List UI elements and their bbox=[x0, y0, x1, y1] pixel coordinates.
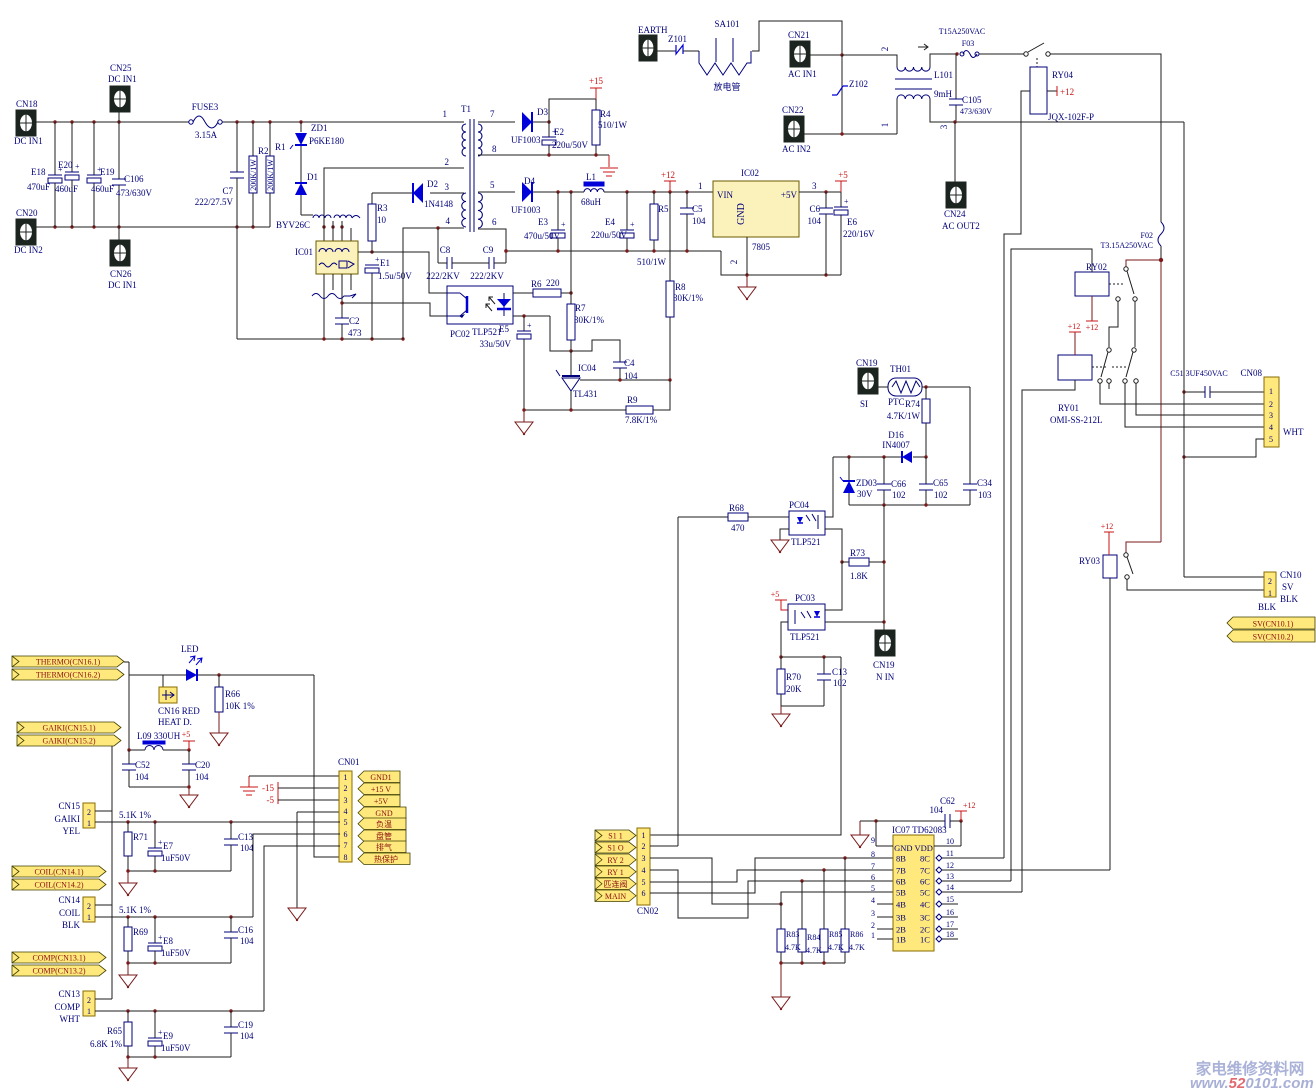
wire IC01 fb to PC02 bbox=[358, 252, 447, 293]
svg-text:DC IN1: DC IN1 bbox=[14, 136, 43, 146]
svg-text:1uF50V: 1uF50V bbox=[161, 853, 191, 863]
svg-text:CN20: CN20 bbox=[16, 208, 38, 218]
wire secondary gnd rail bbox=[506, 250, 721, 252]
svg-text:104: 104 bbox=[808, 216, 822, 226]
relay RY01 contacts bbox=[1092, 366, 1108, 368]
capacitor C5 104 bbox=[686, 192, 688, 208]
wire F03 to switch bbox=[979, 53, 1024, 55]
svg-text:负温: 负温 bbox=[376, 819, 392, 829]
svg-text:TH01: TH01 bbox=[890, 364, 911, 374]
svg-text:7: 7 bbox=[490, 109, 495, 119]
resistor R83 4.7K bbox=[780, 904, 782, 929]
wire CN22 to choke bbox=[804, 133, 897, 135]
svg-text:C2: C2 bbox=[349, 316, 360, 326]
capacitor C34 103 bbox=[969, 387, 971, 484]
svg-text:8B: 8B bbox=[896, 854, 906, 864]
svg-text:BLK: BLK bbox=[62, 920, 81, 930]
net flag RY1 bbox=[595, 866, 636, 878]
svg-text:104: 104 bbox=[692, 216, 706, 226]
svg-text:7C: 7C bbox=[920, 866, 930, 876]
capacitor C13 102 bbox=[823, 657, 825, 674]
wire gnd rail drop bbox=[721, 251, 841, 275]
svg-text:4.7K: 4.7K bbox=[806, 946, 822, 955]
svg-text:CN24: CN24 bbox=[944, 209, 966, 219]
svg-text:CN13: CN13 bbox=[58, 989, 80, 999]
node IC01 top pins bbox=[322, 225, 325, 228]
svg-text:3: 3 bbox=[1269, 411, 1273, 420]
svg-text:TLP521: TLP521 bbox=[472, 327, 502, 337]
svg-text:30K/1%: 30K/1% bbox=[574, 315, 605, 325]
ground IC07 pin9 bbox=[859, 821, 861, 835]
svg-text:2: 2 bbox=[344, 784, 348, 793]
diode D3 UF1003 bbox=[522, 112, 532, 132]
resistor R3 10 bbox=[371, 193, 373, 204]
node junctions on DC rails bbox=[53, 120, 56, 123]
svg-text:4C: 4C bbox=[920, 900, 930, 910]
svg-text:放电管: 放电管 bbox=[713, 81, 740, 92]
zener diode ZD1 P6KE180 bbox=[300, 122, 302, 132]
svg-text:1: 1 bbox=[1269, 387, 1273, 396]
svg-text:UF1003: UF1003 bbox=[511, 135, 541, 145]
svg-text:1C: 1C bbox=[920, 935, 930, 945]
wire RY03 to CN10 pin1 bbox=[1127, 579, 1264, 590]
net flag 盘管 bbox=[358, 830, 406, 842]
svg-text:E4: E4 bbox=[605, 217, 615, 227]
resistor R70 20K bbox=[780, 657, 782, 669]
svg-text:5.1K 1%: 5.1K 1% bbox=[119, 810, 151, 820]
svg-text:RY 1: RY 1 bbox=[607, 868, 623, 877]
wire R4/E2 loop to +15 bbox=[549, 99, 596, 122]
svg-text:+12: +12 bbox=[661, 170, 675, 180]
wire C8 C9 link bbox=[438, 262, 447, 264]
resistor R7 30K/1% bbox=[570, 293, 572, 304]
svg-text:3: 3 bbox=[939, 124, 949, 129]
svg-text:1: 1 bbox=[880, 123, 890, 128]
wire SIO bus bbox=[677, 517, 679, 846]
svg-text:Z102: Z102 bbox=[849, 79, 868, 89]
svg-text:C4: C4 bbox=[624, 358, 635, 368]
svg-text:R4: R4 bbox=[600, 109, 611, 119]
svg-text:L1: L1 bbox=[586, 172, 596, 182]
svg-text:GND1: GND1 bbox=[370, 773, 391, 782]
svg-text:3C: 3C bbox=[920, 913, 930, 923]
svg-text:9mH: 9mH bbox=[934, 89, 953, 99]
svg-text:LED: LED bbox=[181, 644, 199, 654]
wire DC+ top rail bbox=[36, 121, 191, 123]
svg-text:C7: C7 bbox=[222, 186, 233, 196]
svg-text:460uF: 460uF bbox=[55, 184, 78, 194]
svg-text:510/1W: 510/1W bbox=[598, 120, 628, 130]
svg-text:1uF50V: 1uF50V bbox=[161, 948, 191, 958]
svg-text:104: 104 bbox=[135, 772, 149, 782]
svg-text:R9: R9 bbox=[627, 395, 638, 405]
svg-text:COIL(CN14.2): COIL(CN14.2) bbox=[34, 881, 83, 890]
relay RY03 contact bbox=[1124, 553, 1128, 557]
node D3 out bbox=[547, 120, 550, 123]
svg-text:D2: D2 bbox=[427, 179, 438, 189]
ground R70 bbox=[780, 706, 782, 714]
power +12 RY02 coil bbox=[1091, 296, 1093, 321]
svg-text:473/630V: 473/630V bbox=[116, 188, 153, 198]
svg-text:+5: +5 bbox=[771, 590, 780, 599]
connector CN26 DC IN1 bbox=[110, 240, 130, 266]
svg-text:4B: 4B bbox=[896, 900, 906, 910]
relay RY02 contact bbox=[1109, 283, 1123, 285]
svg-text:1.8K: 1.8K bbox=[850, 571, 868, 581]
svg-text:C52: C52 bbox=[135, 760, 150, 770]
svg-text:2: 2 bbox=[87, 902, 91, 911]
svg-text:GND: GND bbox=[736, 203, 747, 225]
svg-text:+12: +12 bbox=[1086, 323, 1099, 332]
wire CN14 pin1 bbox=[95, 916, 253, 918]
resistor R84 4.7K bbox=[801, 881, 803, 929]
svg-text:C105: C105 bbox=[962, 95, 982, 105]
fuse FUSE3 3.15A bbox=[189, 120, 193, 124]
svg-text:473: 473 bbox=[348, 328, 362, 338]
svg-text:F03: F03 bbox=[962, 39, 974, 48]
capacitor C65 102 bbox=[925, 457, 927, 484]
svg-text:3: 3 bbox=[642, 854, 646, 863]
svg-text:+12: +12 bbox=[963, 801, 976, 810]
svg-text:R2: R2 bbox=[258, 146, 269, 156]
wire T1 pin7 to D3 bbox=[478, 121, 515, 123]
capacitor E4 220u/50V bbox=[626, 192, 628, 230]
svg-text:R6: R6 bbox=[531, 279, 542, 289]
inductor pickup BYV26C arcs bbox=[313, 215, 331, 218]
connector CN08 bbox=[1264, 377, 1279, 447]
resistor R71 5.1K bbox=[127, 822, 129, 832]
svg-text:18: 18 bbox=[946, 930, 954, 939]
capacitor C9 222/2KV bbox=[488, 257, 490, 269]
net flag 负温 bbox=[358, 818, 406, 830]
svg-text:L101: L101 bbox=[934, 70, 953, 80]
wire CN01 pin4 to gnd bbox=[297, 811, 340, 813]
capacitor C13 104 (gaiki) bbox=[230, 822, 232, 839]
svg-text:220/16V: 220/16V bbox=[843, 229, 875, 239]
svg-text:TLP521: TLP521 bbox=[791, 537, 821, 547]
svg-text:C34: C34 bbox=[977, 478, 993, 488]
connector CN19 SI bbox=[858, 368, 878, 394]
capacitor C8 222/2KV bbox=[437, 228, 439, 263]
svg-text:1: 1 bbox=[87, 819, 91, 828]
svg-text:R86: R86 bbox=[850, 930, 863, 939]
svg-text:+: + bbox=[561, 220, 566, 229]
capacitor C20 104 bbox=[188, 750, 190, 764]
svg-text:CN02: CN02 bbox=[637, 906, 659, 916]
connector CN18 DC IN1 bbox=[16, 110, 36, 136]
svg-text:IC04: IC04 bbox=[578, 363, 597, 373]
svg-text:VIN: VIN bbox=[717, 190, 733, 200]
svg-text:33u/50V: 33u/50V bbox=[480, 339, 512, 349]
svg-text:E18: E18 bbox=[31, 167, 46, 177]
wire live bus to RY03 bbox=[1126, 542, 1161, 553]
resistor R65 6.8K 1% bbox=[127, 1011, 129, 1022]
svg-text:E9: E9 bbox=[163, 1031, 173, 1041]
svg-text:WHT: WHT bbox=[1283, 427, 1304, 437]
svg-text:OMI-SS-212L: OMI-SS-212L bbox=[1050, 415, 1103, 425]
varistor Z102 bbox=[841, 55, 843, 134]
wire RY01 coil to driver 5C bbox=[1022, 380, 1075, 892]
net flag GND bbox=[358, 807, 406, 819]
svg-text:R1: R1 bbox=[275, 142, 286, 152]
wire CN08 pin5 bbox=[1184, 439, 1264, 457]
wire snubber top rail bbox=[833, 456, 901, 458]
svg-text:R3: R3 bbox=[377, 203, 388, 213]
power +12 main bbox=[664, 180, 676, 182]
svg-text:Z101: Z101 bbox=[668, 34, 687, 44]
svg-text:R66: R66 bbox=[225, 689, 241, 699]
svg-text:E3: E3 bbox=[538, 217, 548, 227]
connector CN16 RED HEAT D. bbox=[162, 675, 164, 687]
wire -5 to CN01 pin3 bbox=[278, 799, 340, 801]
svg-text:-15: -15 bbox=[262, 783, 274, 793]
svg-text:C13: C13 bbox=[238, 832, 254, 842]
resistor R1 200K/1W bbox=[269, 122, 271, 156]
wire switch to F02 column bbox=[1050, 54, 1161, 222]
wire R69 bottom rail bbox=[128, 962, 231, 964]
svg-text:220: 220 bbox=[546, 278, 560, 288]
wire R71 bottom rail bbox=[128, 870, 231, 872]
svg-text:THERMO(CN16.1): THERMO(CN16.1) bbox=[36, 658, 101, 667]
svg-text:3: 3 bbox=[344, 796, 348, 805]
wire RY02 contacts to RY01 bbox=[1109, 301, 1118, 347]
svg-text:D1: D1 bbox=[307, 172, 318, 182]
svg-text:S1 1: S1 1 bbox=[608, 832, 622, 841]
svg-text:FUSE3: FUSE3 bbox=[192, 102, 219, 112]
svg-text:E19: E19 bbox=[100, 167, 115, 177]
resistor R8 30K/1% bbox=[666, 281, 674, 317]
net flag S11 bbox=[595, 830, 636, 841]
svg-text:3B: 3B bbox=[896, 913, 906, 923]
svg-text:8: 8 bbox=[492, 144, 497, 154]
svg-text:5: 5 bbox=[344, 818, 348, 827]
svg-text:2: 2 bbox=[445, 157, 450, 167]
svg-text:CN21: CN21 bbox=[788, 30, 810, 40]
svg-text:3: 3 bbox=[812, 181, 817, 191]
optocoupler PC03 TLP521 bbox=[788, 604, 825, 630]
capacitor C66 102 bbox=[883, 457, 885, 484]
svg-text:11: 11 bbox=[946, 849, 954, 858]
svg-text:PC04: PC04 bbox=[789, 500, 810, 510]
svg-text:+12: +12 bbox=[1101, 522, 1114, 531]
svg-text:1: 1 bbox=[698, 181, 703, 191]
svg-text:UF1003: UF1003 bbox=[511, 205, 541, 215]
ground CN01 pin4 bbox=[288, 908, 306, 920]
svg-text:R8: R8 bbox=[675, 282, 686, 292]
svg-text:COIL: COIL bbox=[59, 908, 80, 918]
svg-text:104: 104 bbox=[240, 1031, 254, 1041]
power +15 bbox=[590, 87, 602, 89]
svg-text:2: 2 bbox=[87, 808, 91, 817]
wire R7 bottom to C4 bbox=[571, 340, 620, 362]
svg-text:+12: +12 bbox=[1060, 87, 1074, 97]
wire C52/C20 gnd rail bbox=[129, 786, 189, 788]
svg-text:BLK: BLK bbox=[1258, 602, 1277, 612]
wire CN26 stub bbox=[118, 227, 120, 240]
diode D1 BYV26C bbox=[300, 146, 302, 182]
net flag GAIKI(CN15.2) bbox=[17, 735, 121, 746]
sense squiggle across pins bbox=[312, 294, 350, 299]
resistor R74 4.7K/1W bbox=[925, 387, 927, 399]
wire 7C to RY03 bbox=[942, 869, 1110, 871]
wire pin9 gnd chain bbox=[876, 845, 893, 847]
power +12 RY01 coil bbox=[1074, 332, 1076, 355]
fuse F02 T3.15A250VAC bbox=[1158, 222, 1164, 246]
svg-text:68uH: 68uH bbox=[581, 197, 602, 207]
svg-text:C20: C20 bbox=[195, 760, 211, 770]
IC02 7805 regulator bbox=[713, 181, 799, 237]
choke L101 9mH bbox=[842, 55, 897, 67]
svg-text:1: 1 bbox=[871, 931, 875, 940]
net flag THERMO(CN16.1) bbox=[12, 656, 124, 667]
wire DC- bottom rail bbox=[36, 226, 270, 228]
svg-text:1B: 1B bbox=[896, 935, 906, 945]
svg-text:PTC: PTC bbox=[888, 397, 905, 407]
wire CN13 pin2 stub bbox=[95, 998, 112, 1000]
svg-text:30V: 30V bbox=[857, 489, 873, 499]
svg-text:470uF: 470uF bbox=[27, 182, 50, 192]
zener ZD03 30V bbox=[848, 457, 850, 480]
svg-text:C51 3UF450VAC: C51 3UF450VAC bbox=[1170, 369, 1227, 378]
svg-text:S1 O: S1 O bbox=[607, 844, 623, 853]
svg-text:CN26: CN26 bbox=[110, 269, 132, 279]
svg-text:R73: R73 bbox=[850, 548, 866, 558]
wire L09 rail bbox=[129, 749, 145, 751]
svg-text:4: 4 bbox=[446, 216, 451, 226]
svg-text:R74: R74 bbox=[905, 399, 921, 409]
svg-text:PC02: PC02 bbox=[450, 329, 470, 339]
svg-text:20K: 20K bbox=[786, 684, 802, 694]
capacitor C7 222/27.5V bbox=[236, 122, 238, 172]
diode D4 UF1003 bbox=[522, 182, 532, 202]
wire F02 to node bbox=[1160, 246, 1162, 260]
svg-text:E5: E5 bbox=[499, 324, 509, 334]
svg-text:2: 2 bbox=[1269, 400, 1273, 409]
net flag COIL(CN14.1) bbox=[12, 866, 106, 877]
svg-text:WHT: WHT bbox=[60, 1014, 81, 1024]
svg-text:+: + bbox=[630, 220, 635, 229]
svg-text:+: + bbox=[527, 321, 532, 330]
power +12 RY04 bbox=[1047, 90, 1057, 92]
svg-text:C9: C9 bbox=[483, 245, 494, 255]
node F02 out bbox=[1159, 258, 1163, 262]
svg-text:T1: T1 bbox=[461, 104, 471, 114]
net flag +5V bbox=[358, 795, 400, 807]
svg-text:YEL: YEL bbox=[63, 826, 81, 836]
svg-text:2C: 2C bbox=[920, 925, 930, 935]
wire thermo net bbox=[124, 661, 129, 663]
svg-text:5: 5 bbox=[871, 884, 875, 893]
svg-text:222/2KV: 222/2KV bbox=[470, 271, 504, 281]
svg-text:222/27.5V: 222/27.5V bbox=[195, 197, 234, 207]
connector CN22 AC IN2 bbox=[784, 116, 804, 142]
wire 5C to RY01 bbox=[942, 891, 1022, 893]
svg-text:CN22: CN22 bbox=[782, 105, 804, 115]
svg-text:104: 104 bbox=[195, 772, 209, 782]
svg-text:+15: +15 bbox=[589, 76, 604, 86]
svg-text:T15A250VAC: T15A250VAC bbox=[939, 27, 986, 36]
svg-text:5: 5 bbox=[490, 180, 495, 190]
ground IC02 bbox=[746, 275, 748, 287]
net flag SV(CN10.1) bbox=[1227, 617, 1315, 629]
svg-text:C8: C8 bbox=[440, 245, 451, 255]
svg-text:7805: 7805 bbox=[752, 242, 771, 252]
svg-text:E20: E20 bbox=[58, 160, 73, 170]
svg-text:CN18: CN18 bbox=[16, 99, 38, 109]
svg-text:GND: GND bbox=[375, 809, 393, 818]
wire T1 pin2 to IC01 pin bbox=[324, 168, 464, 241]
svg-text:3: 3 bbox=[445, 182, 450, 192]
svg-text:1: 1 bbox=[1268, 589, 1272, 598]
wire snubber bottom rail bbox=[849, 504, 970, 506]
svg-text:6: 6 bbox=[642, 889, 646, 898]
svg-text:104: 104 bbox=[240, 936, 254, 946]
svg-text:102: 102 bbox=[833, 678, 847, 688]
svg-text:220u/50V: 220u/50V bbox=[552, 140, 589, 150]
wire CN21 to node bbox=[810, 54, 842, 56]
svg-text:GAIKI(CN15.1): GAIKI(CN15.1) bbox=[42, 724, 95, 733]
svg-text:RY03: RY03 bbox=[1079, 556, 1101, 566]
ground PC04 bbox=[780, 529, 789, 540]
svg-text:C5: C5 bbox=[692, 204, 703, 214]
net flag THERMO(CN16.2) bbox=[12, 669, 124, 680]
wire primary return rail bbox=[237, 338, 403, 340]
svg-text:DC IN1: DC IN1 bbox=[108, 74, 137, 84]
svg-text:TL431: TL431 bbox=[573, 389, 598, 399]
net flag SV(CN10.2) bbox=[1227, 630, 1315, 642]
connector CN24 AC OUT2 bbox=[946, 182, 966, 208]
capacitor C6 104 bbox=[825, 192, 827, 208]
svg-text:13: 13 bbox=[946, 872, 954, 881]
arrow mark bbox=[918, 44, 928, 50]
svg-text:14: 14 bbox=[946, 883, 954, 892]
ground C20 bbox=[188, 787, 190, 795]
svg-text:8: 8 bbox=[344, 853, 348, 862]
svg-text:GND VDD: GND VDD bbox=[894, 843, 933, 853]
wire SA101 loop bbox=[752, 21, 842, 55]
ground GND1 symbol bbox=[248, 776, 250, 787]
svg-text:4: 4 bbox=[642, 866, 646, 875]
svg-text:DC IN1: DC IN1 bbox=[108, 280, 137, 290]
wire TL431 ref rail bbox=[580, 379, 670, 381]
svg-text:D16: D16 bbox=[888, 430, 904, 440]
svg-text:1uF50V: 1uF50V bbox=[161, 1043, 191, 1053]
svg-text:16: 16 bbox=[946, 908, 954, 917]
wire T1 pin5 rail bbox=[478, 191, 515, 193]
wire CN02 pin3 RY2 to 5B bbox=[650, 858, 781, 904]
svg-text:+5V: +5V bbox=[374, 797, 389, 806]
svg-text:7B: 7B bbox=[896, 866, 906, 876]
svg-text:4.7K/1W: 4.7K/1W bbox=[887, 411, 921, 421]
IC01 control IC bbox=[316, 241, 358, 274]
svg-text:6: 6 bbox=[871, 873, 875, 882]
connector CN25 DC IN1 bbox=[110, 86, 130, 112]
svg-text:IC07 TD62083: IC07 TD62083 bbox=[892, 825, 947, 835]
svg-text:1N4148: 1N4148 bbox=[424, 199, 453, 209]
svg-text:RY04: RY04 bbox=[1052, 70, 1074, 80]
svg-text:1: 1 bbox=[642, 831, 646, 840]
svg-text:200K/1W: 200K/1W bbox=[249, 159, 258, 191]
spark gap Z101 bbox=[657, 50, 676, 52]
svg-text:SI: SI bbox=[860, 399, 868, 409]
svg-text:2: 2 bbox=[1268, 577, 1272, 586]
wire RY01 to CN08 pin2 bbox=[1100, 383, 1264, 404]
svg-text:2B: 2B bbox=[896, 925, 906, 935]
capacitor E5 33u/50V bbox=[523, 316, 525, 331]
wire gnd rail under TL431 bbox=[524, 409, 626, 411]
svg-text:SA101: SA101 bbox=[714, 19, 739, 29]
svg-text:C6: C6 bbox=[809, 204, 820, 214]
